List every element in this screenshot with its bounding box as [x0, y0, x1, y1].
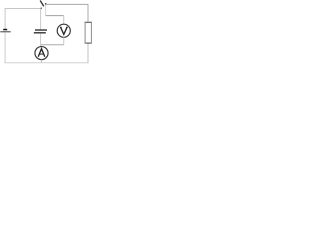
wire bottom rail [5, 62, 88, 64]
capacitor bottom plate [34, 32, 46, 33]
capacitor top plate [35, 29, 47, 30]
resistor box [85, 22, 93, 44]
wire battery bottom lead to bottom rail [4, 32, 6, 63]
wire voltmeter bottom lead [63, 37, 65, 44]
switch left terminal dot [41, 8, 42, 9]
battery short thick plate [3, 29, 7, 31]
wire top-right from switch to right rail [46, 4, 88, 22]
wire right rail lower from resistor to bottom rail [87, 43, 89, 63]
switch S lever [40, 1, 44, 7]
ammeter label A [38, 49, 45, 57]
voltmeter label V [60, 27, 68, 34]
wire top-left from battery to switch [5, 9, 41, 29]
wire junction horizontal to voltmeter [41, 44, 64, 46]
wire voltmeter top horizontal [46, 15, 64, 17]
wire ammeter bottom lead to bottom rail [41, 60, 43, 63]
wire voltmeter top lead [63, 16, 65, 25]
wire voltmeter tap down from switch node [45, 5, 47, 16]
ammeter circle [35, 47, 48, 60]
battery long thin plate [0, 31, 10, 32]
switch right terminal dot [45, 3, 47, 5]
wire capacitor branch drop from top wire [40, 9, 42, 30]
voltmeter circle [57, 24, 70, 37]
wire capacitor bottom lead to ammeter [40, 33, 42, 46]
